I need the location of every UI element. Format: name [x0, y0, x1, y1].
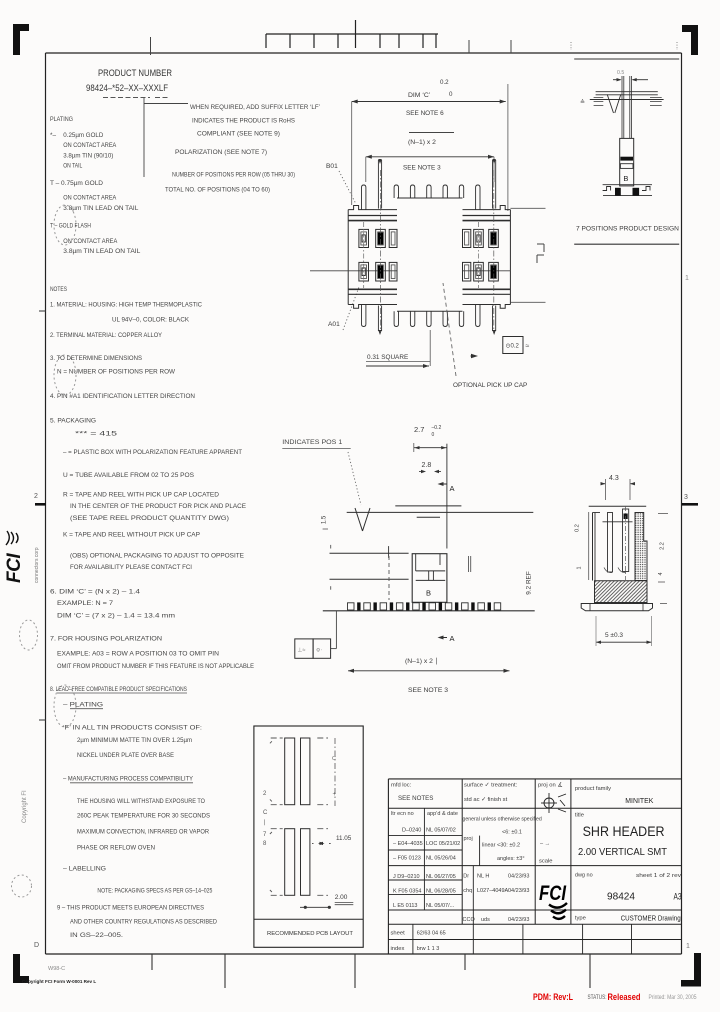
svg-text:(SEE TAPE REEL PRODUCT QUANTIT: (SEE TAPE REEL PRODUCT QUANTITY DWG) — [70, 515, 229, 522]
svg-text:3.8µm TIN LEAD ON TAIL: 3.8µm TIN LEAD ON TAIL — [63, 205, 138, 212]
svg-text:ltr ecn no: ltr ecn no — [391, 811, 414, 817]
svg-text:2.8: 2.8 — [422, 462, 432, 469]
svg-text:NL 05/07/02: NL 05/07/02 — [426, 828, 456, 834]
svg-text:RECOMMENDED PCB LAYOUT: RECOMMENDED PCB LAYOUT — [267, 931, 353, 937]
svg-text:COMPLIANT (SEE NOTE 9): COMPLIANT (SEE NOTE 9) — [197, 131, 280, 138]
svg-text:≈: ≈ — [526, 343, 530, 350]
svg-text:AND OTHER COUNTRY REGULATIONS: AND OTHER COUNTRY REGULATIONS AS DESCRIB… — [70, 919, 217, 926]
svg-text:4: 4 — [658, 572, 664, 575]
svg-text:8. LEAD–FREE COMPATIBLE PRODUC: 8. LEAD–FREE COMPATIBLE PRODUCT SPECIFIC… — [50, 686, 187, 693]
svg-text:NL 06/27/05: NL 06/27/05 — [426, 874, 456, 880]
svg-text:*–: *– — [50, 132, 56, 139]
svg-text:*** = 415: *** = 415 — [75, 431, 118, 438]
svg-text:3. TO DETERMINE DIMENSIONS: 3. TO DETERMINE DIMENSIONS — [50, 355, 142, 362]
svg-text:98424: 98424 — [607, 892, 635, 903]
svg-text:dwg no: dwg no — [575, 873, 593, 879]
svg-text:C: C — [263, 810, 268, 816]
svg-text:260C PEAK TEMPERATURE FOR 30 S: 260C PEAK TEMPERATURE FOR 30 SECONDS — [77, 813, 210, 820]
svg-text:– F05 0123: – F05 0123 — [393, 856, 421, 862]
svg-text:1: 1 — [577, 566, 583, 569]
svg-text:chq: chq — [463, 888, 472, 894]
svg-text:3.8µm TIN LEAD ON TAIL: 3.8µm TIN LEAD ON TAIL — [63, 248, 140, 255]
svg-text:11.05: 11.05 — [336, 835, 352, 842]
svg-text:SEE NOTE 3: SEE NOTE 3 — [408, 687, 448, 694]
svg-text:mfd loc:: mfd loc: — [391, 783, 412, 789]
svg-text:linear <30: ±0.2: linear <30: ±0.2 — [482, 843, 520, 849]
svg-text:THE HOUSING WILL WITHSTAND EXP: THE HOUSING WILL WITHSTAND EXPOSURE TO — [77, 798, 205, 805]
svg-text:Dr: Dr — [463, 874, 469, 880]
svg-text:⊙0.2: ⊙0.2 — [506, 344, 520, 350]
svg-text:DIM ‘C’: DIM ‘C’ — [408, 92, 431, 99]
svg-text:POLARIZATION (SEE NOTE 7): POLARIZATION (SEE NOTE 7) — [175, 149, 267, 156]
svg-text:OMIT FROM PRODUCT NUMBER IF TH: OMIT FROM PRODUCT NUMBER IF THIS FEATURE… — [57, 663, 254, 670]
svg-text:B01: B01 — [326, 163, 338, 170]
svg-text:sheet 1 of 2 rev: sheet 1 of 2 rev — [636, 873, 681, 879]
svg-text:Released: Released — [608, 992, 641, 1002]
svg-text:NOTES: NOTES — [50, 286, 67, 293]
svg-text:PRODUCT NUMBER: PRODUCT NUMBER — [98, 68, 172, 78]
svg-text:4. PIN #A1 IDENTIFICATION LETT: 4. PIN #A1 IDENTIFICATION LETTER DIRECTI… — [50, 393, 195, 400]
svg-text:A: A — [450, 634, 455, 643]
svg-text:title: title — [575, 813, 584, 819]
svg-text:0.2: 0.2 — [575, 524, 581, 532]
svg-text:1: 1 — [686, 943, 690, 950]
svg-text:FCI: FCI — [539, 882, 567, 905]
svg-text:≙: ≙ — [580, 99, 585, 106]
svg-text:surface ✓ treatment:: surface ✓ treatment: — [464, 783, 518, 789]
svg-text:IN GS–22–005.: IN GS–22–005. — [70, 932, 123, 939]
svg-text:9.2 REF: 9.2 REF — [526, 571, 533, 595]
svg-text:– E04–4035: – E04–4035 — [393, 841, 423, 847]
svg-text:W98-C: W98-C — [48, 966, 65, 972]
svg-text:angles: ±3°: angles: ±3° — [497, 856, 525, 862]
svg-text:INDICATES THE PRODUCT IS RoHS: INDICATES THE PRODUCT IS RoHS — [192, 118, 295, 125]
svg-text:Copyright FCI Form W-0001 Rev: Copyright FCI Form W-0001 Rev L — [22, 979, 96, 984]
svg-text:B: B — [426, 589, 431, 598]
svg-text:‘F’ IN ALL TIN PRODUCTS CONSIS: ‘F’ IN ALL TIN PRODUCTS CONSIST OF: — [63, 725, 202, 732]
svg-text:L027–4049A: L027–4049A — [477, 888, 509, 894]
svg-text:5 ±0.3: 5 ±0.3 — [605, 632, 623, 639]
svg-text:7: 7 — [263, 832, 267, 838]
svg-text:A: A — [450, 484, 455, 493]
svg-text:2.00: 2.00 — [335, 894, 348, 901]
svg-text:DIM ‘C’ = (7 x 2) – 1.4 = 13.4: DIM ‘C’ = (7 x 2) – 1.4 = 13.4 mm — [57, 613, 175, 620]
svg-text:CUSTOMER Drawing: CUSTOMER Drawing — [621, 916, 681, 923]
svg-text:type: type — [575, 916, 586, 922]
svg-text:T – 0.75µm GOLD: T – 0.75µm GOLD — [50, 180, 103, 187]
svg-text:sheet: sheet — [391, 931, 406, 937]
svg-text:04/23/93: 04/23/93 — [508, 874, 529, 880]
svg-text:2.2: 2.2 — [660, 542, 666, 550]
svg-text:(N–1) x 2: (N–1) x 2 — [408, 139, 436, 146]
svg-text:04/23/93: 04/23/93 — [508, 888, 529, 894]
svg-text:K = TAPE AND REEL WITHOUT PICK: K = TAPE AND REEL WITHOUT PICK UP CAP — [63, 532, 200, 539]
svg-text:9 – THIS PRODUCT MEETS EUROPEA: 9 – THIS PRODUCT MEETS EUROPEAN DIRECTIV… — [57, 904, 204, 911]
svg-text:– = PLASTIC BOX WITH POLARIZAT: – = PLASTIC BOX WITH POLARIZATION FEATUR… — [63, 449, 242, 456]
svg-text:2.00 VERTICAL SMT: 2.00 VERTICAL SMT — [578, 846, 668, 858]
svg-text:NL H: NL H — [477, 874, 489, 880]
svg-text:0: 0 — [432, 432, 435, 438]
svg-text:1: 1 — [685, 275, 689, 282]
svg-text:0: 0 — [449, 91, 453, 98]
svg-text:B: B — [623, 174, 628, 183]
svg-text:0.2: 0.2 — [440, 79, 449, 86]
svg-text:1. MATERIAL: HOUSING: HIGH TEM: 1. MATERIAL: HOUSING: HIGH TEMP THERMOPL… — [50, 301, 202, 308]
svg-text:IN THE CENTER OF THE PRODUCT F: IN THE CENTER OF THE PRODUCT FOR PICK AN… — [70, 503, 246, 510]
svg-text:– →: – → — [540, 841, 550, 847]
svg-text:UL 94V–0, COLOR: BLACK: UL 94V–0, COLOR: BLACK — [112, 316, 190, 323]
svg-text:04/23/93: 04/23/93 — [508, 917, 529, 923]
svg-text:NL 05/26/04: NL 05/26/04 — [426, 856, 456, 862]
svg-text:8: 8 — [263, 841, 267, 847]
svg-text:ON CONTACT AREA: ON CONTACT AREA — [63, 238, 118, 245]
svg-text:product family: product family — [575, 786, 611, 792]
svg-text:brw 1 1 3: brw 1 1 3 — [417, 946, 440, 952]
svg-text:proj on ∡: proj on ∡ — [538, 783, 563, 789]
svg-text:R = TAPE AND REEL WITH PICK UP: R = TAPE AND REEL WITH PICK UP CAP LOCAT… — [63, 491, 219, 498]
svg-text:CCO: CCO — [463, 917, 476, 923]
svg-text:4.3: 4.3 — [609, 475, 619, 482]
svg-text:TOTAL NO. OF POSITIONS (04 TO: TOTAL NO. OF POSITIONS (04 TO 60) — [165, 187, 270, 194]
svg-text:Printed: Mar 30, 2005: Printed: Mar 30, 2005 — [649, 994, 697, 1001]
svg-text:SHR HEADER: SHR HEADER — [583, 823, 665, 839]
svg-text:2: 2 — [34, 493, 38, 500]
svg-text:INDICATES POS 1: INDICATES POS 1 — [282, 439, 342, 446]
svg-text:ON TAIL: ON TAIL — [63, 163, 82, 170]
svg-text:N = NUMBER OF POSITIONS PER RO: N = NUMBER OF POSITIONS PER ROW — [57, 369, 176, 376]
svg-text:⊥≈: ⊥≈ — [298, 647, 306, 654]
svg-text:0.25µm GOLD: 0.25µm GOLD — [63, 132, 103, 139]
svg-text:T – GOLD FLASH: T – GOLD FLASH — [50, 223, 91, 230]
svg-text:1.5: 1.5 — [322, 515, 328, 524]
svg-text:FCI: FCI — [4, 553, 25, 583]
svg-text:std ac ✓ finish st: std ac ✓ finish st — [464, 797, 508, 803]
svg-text:⎉·: ⎉· — [316, 648, 322, 654]
svg-text:– PLATING: – PLATING — [63, 702, 103, 709]
svg-text:6. DIM ‘C’ = (N x 2) – 1.4: 6. DIM ‘C’ = (N x 2) – 1.4 — [50, 588, 141, 595]
svg-text:PLATING: PLATING — [50, 116, 73, 123]
svg-text:J D9–0210: J D9–0210 — [393, 874, 420, 880]
svg-text:NUMBER OF POSITIONS PER ROW (0: NUMBER OF POSITIONS PER ROW (05 THRU 30) — [172, 172, 295, 179]
svg-text:EXAMPLE: A03 = ROW A POSITION: EXAMPLE: A03 = ROW A POSITION 03 TO OMIT… — [57, 651, 219, 658]
svg-text:PHASE OR REFLOW OVEN: PHASE OR REFLOW OVEN — [77, 845, 155, 852]
svg-text:U = TUBE AVAILABLE FROM 02 TO: U = TUBE AVAILABLE FROM 02 TO 25 POS — [63, 472, 194, 479]
svg-text:app’d & date: app’d & date — [427, 811, 458, 817]
svg-text:7. FOR HOUSING POLARIZATION: 7. FOR HOUSING POLARIZATION — [50, 636, 162, 643]
svg-text:2.7: 2.7 — [414, 425, 424, 434]
svg-text:NL 05/07/...: NL 05/07/... — [426, 903, 455, 909]
svg-text:MINITEK: MINITEK — [625, 796, 653, 805]
svg-text:K F05 0354: K F05 0354 — [393, 889, 421, 895]
svg-text:NL 06/28/05: NL 06/28/05 — [426, 889, 456, 895]
svg-text:<6: ±0.1: <6: ±0.1 — [502, 830, 522, 836]
svg-text:EXAMPLE: N = 7: EXAMPLE: N = 7 — [57, 600, 113, 607]
svg-text:LOC 05/21/02: LOC 05/21/02 — [426, 841, 460, 847]
svg-text:STATUS:: STATUS: — [588, 994, 607, 1001]
svg-text:A01: A01 — [328, 321, 340, 328]
svg-text:general unless otherwise speci: general unless otherwise specified — [463, 817, 542, 823]
svg-text:ON CONTACT AREA: ON CONTACT AREA — [63, 195, 117, 202]
svg-text:SEE NOTE 3: SEE NOTE 3 — [403, 165, 441, 172]
svg-text:MAXIMUM CONVECTION, INFRARED O: MAXIMUM CONVECTION, INFRARED OR VAPOR — [77, 828, 209, 835]
svg-text:D–0240: D–0240 — [402, 828, 421, 834]
svg-text:scale: scale — [539, 859, 553, 865]
svg-text:NOTE: PACKAGING SPECS AS PER G: NOTE: PACKAGING SPECS AS PER GS–14–025 — [97, 888, 212, 895]
svg-text:A3: A3 — [674, 892, 682, 903]
svg-text:0.31 SQUARE: 0.31 SQUARE — [367, 354, 408, 361]
svg-text:3: 3 — [684, 494, 688, 501]
svg-text:Copyright FI: Copyright FI — [22, 790, 28, 823]
svg-text:uds: uds — [481, 917, 490, 923]
svg-text:NICKEL UNDER PLATE OVER BASE: NICKEL UNDER PLATE OVER BASE — [77, 752, 174, 759]
svg-text:PDM: Rev:L: PDM: Rev:L — [533, 992, 573, 1002]
svg-text:– MANUFACTURING PROCESS COMPAT: – MANUFACTURING PROCESS COMPATIBILITY — [63, 776, 194, 783]
svg-text:OPTIONAL PICK UP CAP: OPTIONAL PICK UP CAP — [453, 382, 527, 389]
svg-text:5. PACKAGING: 5. PACKAGING — [50, 417, 96, 424]
svg-text:62/63 04 65: 62/63 04 65 — [417, 931, 446, 937]
svg-text:7 POSITIONS PRODUCT DESIGN: 7 POSITIONS PRODUCT DESIGN — [576, 226, 679, 233]
svg-text:2: 2 — [263, 791, 267, 797]
svg-text:WHEN REQUIRED, ADD SUFFIX LETT: WHEN REQUIRED, ADD SUFFIX LETTER ‘LF’ — [190, 104, 321, 111]
svg-text:0.5: 0.5 — [617, 70, 624, 76]
svg-text:D: D — [34, 942, 39, 949]
svg-text:(OBS) OPTIONAL PACKAGING TO AD: (OBS) OPTIONAL PACKAGING TO ADJUST TO OP… — [70, 553, 244, 560]
svg-text:FOR AVAILABILITY PLEASE CONTAC: FOR AVAILABILITY PLEASE CONTACT FCI — [70, 564, 192, 571]
svg-text:SEE NOTE 6: SEE NOTE 6 — [406, 110, 444, 117]
svg-text:connectors corp: connectors corp — [34, 547, 40, 583]
svg-text:2µm MINIMUM MATTE TIN OVER 1.2: 2µm MINIMUM MATTE TIN OVER 1.25µm — [77, 737, 192, 744]
svg-text:ON CONTACT AREA: ON CONTACT AREA — [63, 142, 117, 149]
svg-text:–0.2: –0.2 — [432, 425, 442, 431]
svg-text:C: C — [332, 756, 336, 762]
svg-text:2. TERMINAL MATERIAL: COPPER A: 2. TERMINAL MATERIAL: COPPER ALLOY — [50, 332, 163, 339]
svg-text:index: index — [391, 946, 405, 952]
svg-text:L E5 0113: L E5 0113 — [393, 903, 417, 909]
svg-text:proj: proj — [464, 836, 473, 842]
svg-text:∣: ∣ — [263, 819, 266, 826]
svg-text:(N–1) x 2 ∣: (N–1) x 2 ∣ — [405, 657, 438, 665]
svg-text:+: + — [333, 792, 337, 798]
svg-text:SEE NOTES: SEE NOTES — [398, 795, 433, 802]
svg-text:98424–*52–XX–XXXLF: 98424–*52–XX–XXXLF — [86, 83, 168, 93]
svg-text:– LABELLING: – LABELLING — [63, 866, 106, 873]
svg-text:3.8µm TIN (90/10): 3.8µm TIN (90/10) — [63, 152, 113, 159]
